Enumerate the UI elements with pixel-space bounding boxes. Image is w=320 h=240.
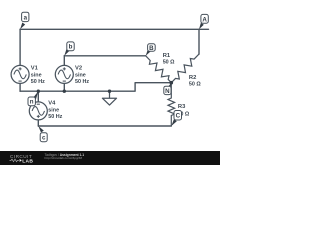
- node tag b: [64, 42, 74, 56]
- svg-text:V2: V2: [75, 66, 82, 72]
- svg-text:sine: sine: [48, 107, 59, 113]
- svg-text:c: c: [42, 135, 46, 142]
- label V2: [75, 66, 89, 85]
- svg-text:A: A: [202, 16, 207, 23]
- svg-text:V1: V1: [31, 66, 39, 72]
- node tag a: [20, 12, 29, 29]
- wire right vertical A to R2: [198, 29, 200, 54]
- ground: [102, 91, 116, 105]
- svg-text:LAB: LAB: [22, 158, 33, 164]
- wire V4 top: [37, 91, 39, 102]
- svg-text:V4: V4: [48, 101, 56, 107]
- svg-text:R1: R1: [163, 53, 171, 59]
- svg-text:b: b: [69, 44, 73, 51]
- voltage source V4 (plus at bottom): [29, 102, 47, 120]
- resistor R1: [146, 56, 172, 83]
- node tag B: [146, 44, 156, 56]
- wire bottom rail: [38, 125, 171, 127]
- svg-text:sine: sine: [31, 72, 42, 78]
- node tag A: [199, 14, 208, 29]
- wire V2 top: [63, 56, 65, 66]
- wire b-B: [64, 55, 145, 57]
- wire left vertical to V1: [19, 29, 21, 65]
- node tag c: [38, 126, 47, 142]
- wire mid rail: [20, 83, 171, 92]
- label R3: [177, 104, 189, 117]
- svg-text:50 Hz: 50 Hz: [48, 114, 62, 120]
- footer logo LAB: [20, 159, 22, 162]
- footer logo zigzag: [10, 159, 19, 162]
- resistor R2: [171, 54, 199, 83]
- wire top rail a-A: [20, 28, 208, 30]
- node tag C: [171, 111, 181, 127]
- svg-text:a: a: [24, 14, 28, 21]
- svg-text:sine: sine: [75, 72, 86, 78]
- svg-text:50 Ω: 50 Ω: [189, 82, 201, 88]
- label R1: [163, 53, 175, 66]
- wire V1 bottom: [19, 83, 21, 91]
- label V4: [48, 101, 62, 120]
- svg-text:50 Hz: 50 Hz: [31, 79, 45, 85]
- svg-text:n: n: [30, 99, 34, 106]
- wire V4 bottom: [37, 120, 39, 126]
- svg-text:R3: R3: [178, 104, 186, 110]
- node tag N: [164, 83, 172, 95]
- resistor R3: [168, 83, 175, 126]
- svg-text:http://circuitlab.com/c6pgr68: http://circuitlab.com/c6pgr68: [45, 156, 83, 160]
- svg-text:B: B: [149, 45, 154, 52]
- node tag n: [28, 91, 38, 106]
- svg-text:R2: R2: [189, 75, 196, 81]
- voltage source V1: [11, 65, 29, 83]
- svg-text:50 Hz: 50 Hz: [75, 79, 89, 85]
- svg-text:N: N: [165, 88, 170, 95]
- label R2: [189, 75, 201, 88]
- wire V2 bottom: [63, 83, 65, 91]
- voltage source V2: [55, 65, 73, 83]
- svg-text:C: C: [176, 113, 181, 120]
- junction node dots: [37, 81, 174, 93]
- label V1: [31, 66, 45, 85]
- footer bar: [0, 151, 220, 165]
- svg-text:50 Ω: 50 Ω: [163, 60, 175, 66]
